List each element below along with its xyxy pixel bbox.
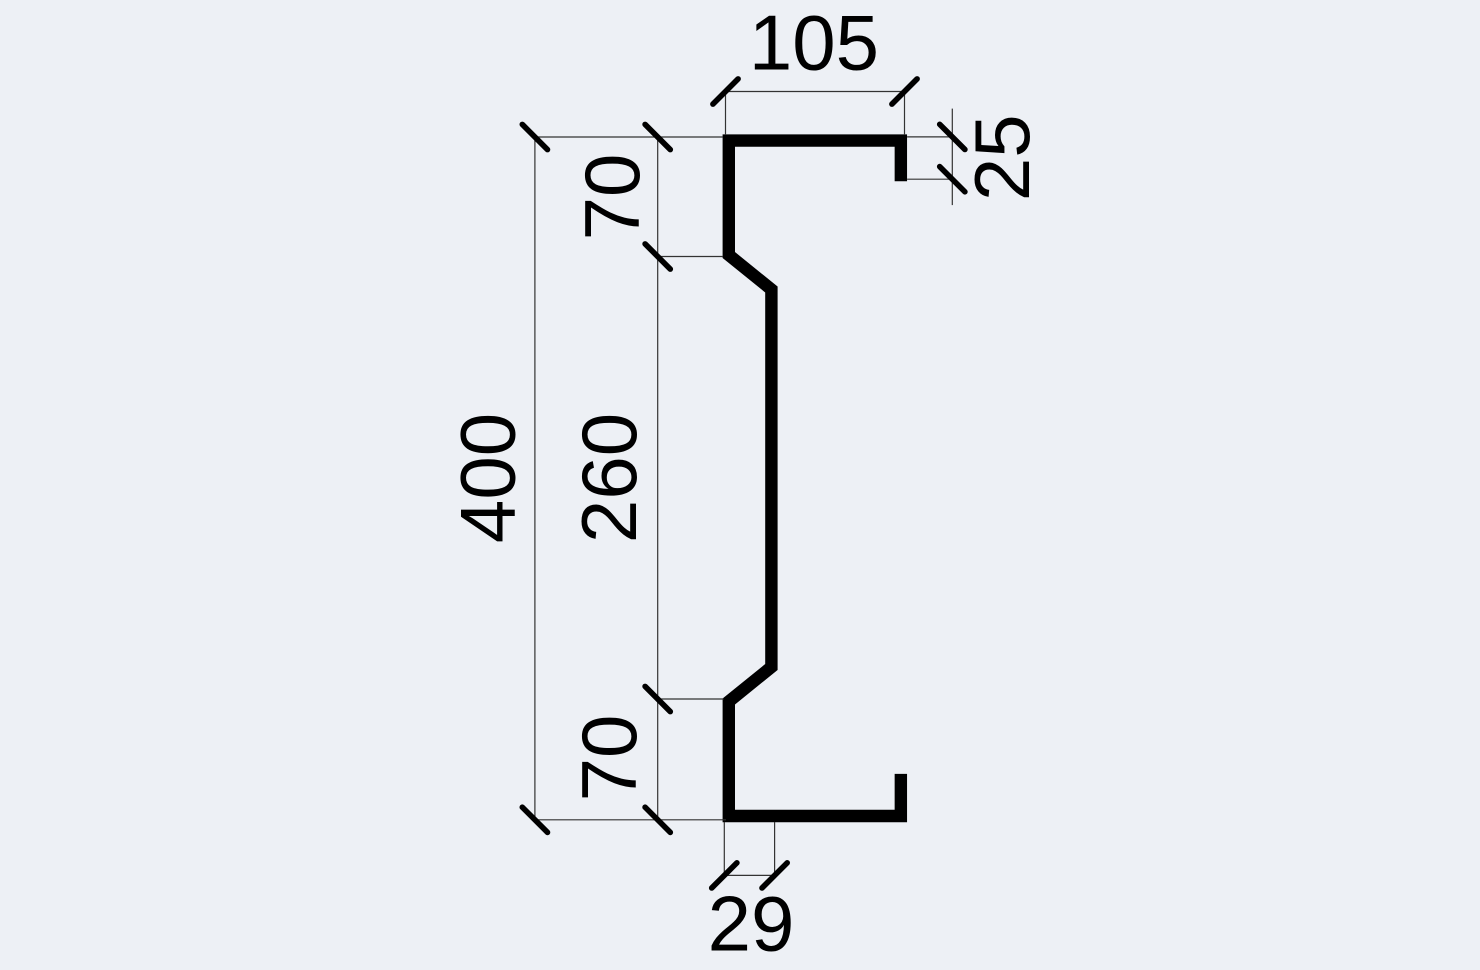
extension line at 70 bottom-bend: [658, 698, 724, 700]
svg-text:105: 105: [749, 0, 879, 87]
svg-text:260: 260: [565, 413, 653, 543]
105 right tick: [892, 79, 917, 104]
29 right extension: [774, 822, 776, 875]
400 dim line (left column): [534, 137, 536, 820]
105 left extension: [725, 92, 727, 135]
oblique ticks: [522, 79, 965, 888]
105 dim line: [726, 91, 905, 93]
70/260 tick at 256.5: [645, 244, 670, 269]
extension line at 70 top-bend: [658, 256, 723, 258]
dimension thin lines: [535, 92, 952, 876]
260/70 tick at 699: [645, 686, 670, 711]
29 left tick: [712, 863, 737, 888]
25 top tick: [940, 124, 965, 149]
70/260/70 dim line (second column): [657, 137, 659, 820]
400 bottom tick: [522, 807, 547, 832]
svg-text:70: 70: [565, 715, 653, 802]
extension line top (to top-left corner of profile): [535, 136, 723, 138]
25 dim line (vertical): [951, 109, 953, 206]
70 bottom tick: [645, 807, 670, 832]
svg-text:400: 400: [444, 413, 532, 543]
25 top extension: [907, 136, 952, 138]
70 top tick: [645, 124, 670, 149]
svg-text:25: 25: [958, 114, 1046, 201]
svg-text:70: 70: [568, 154, 656, 241]
400 top tick: [522, 124, 547, 149]
25 bottom extension: [907, 178, 952, 180]
profile outline (sigma channel cross-section): [729, 141, 901, 816]
29 left extension: [723, 822, 725, 875]
105 right extension: [904, 92, 906, 135]
29 right tick: [762, 863, 787, 888]
svg-text:29: 29: [708, 879, 795, 967]
25 bottom tick: [940, 167, 965, 192]
extension line bottom (to bottom-left corner of profile): [535, 819, 726, 821]
105 left tick: [713, 79, 738, 104]
29 dim line: [724, 874, 774, 876]
